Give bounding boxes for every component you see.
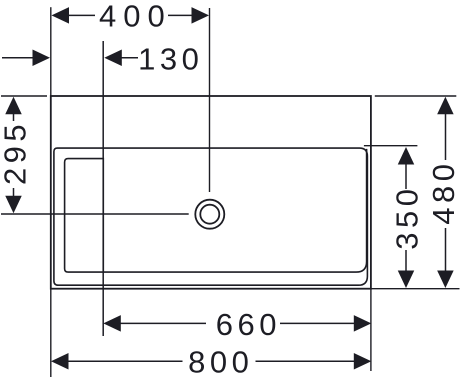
- svg-text:400: 400: [99, 0, 172, 33]
- svg-text:295: 295: [0, 120, 32, 185]
- svg-text:350: 350: [389, 185, 424, 250]
- svg-text:480: 480: [426, 160, 461, 225]
- svg-text:660: 660: [216, 307, 281, 342]
- svg-text:130: 130: [138, 42, 203, 77]
- svg-text:800: 800: [188, 344, 253, 379]
